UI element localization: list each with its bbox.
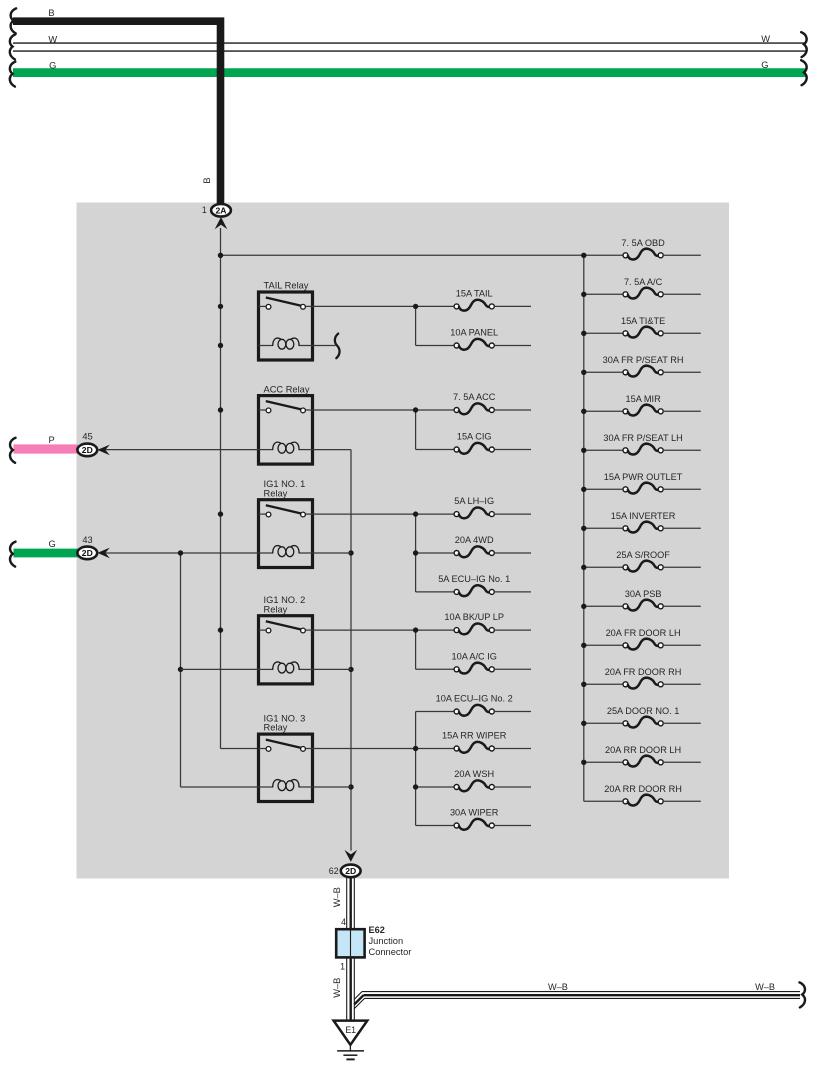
fuse 15A CIG (454, 432, 531, 454)
connector 2D pin 62 (341, 865, 361, 878)
fuse 15A TI&TE (621, 316, 701, 338)
fuse 10A ECU–IG No. 2 (436, 694, 531, 716)
fuse 10A PANEL (450, 328, 531, 350)
wire: coil bus to IG1 NO.2 coil (181, 668, 259, 670)
wire: coil return down-bus (right) (350, 450, 352, 851)
svg-text:25A DOOR NO. 1: 25A DOOR NO. 1 (607, 706, 680, 716)
relay IG1 NO. 1 (259, 479, 313, 567)
svg-text:30A PSB: 30A PSB (625, 589, 662, 599)
svg-text:G: G (49, 60, 56, 70)
svg-text:20A WSH: 20A WSH (454, 769, 494, 779)
svg-text:30A WIPER: 30A WIPER (450, 808, 499, 818)
label B vertical (202, 177, 212, 183)
svg-text:2D: 2D (345, 866, 356, 876)
fuse bus TAIL group (413, 304, 454, 346)
svg-text:20A FR DOOR LH: 20A FR DOOR LH (606, 628, 681, 638)
svg-text:5A LH–IG: 5A LH–IG (454, 496, 494, 506)
fuse 15A RR WIPER (442, 731, 531, 753)
svg-text:43: 43 (82, 535, 92, 545)
break symbol W left (10, 34, 15, 59)
svg-text:W: W (761, 34, 770, 44)
pin 43 label (82, 535, 92, 545)
fuse 15A TAIL (454, 288, 531, 310)
svg-text:15A TI&TE: 15A TI&TE (621, 316, 665, 326)
svg-text:62: 62 (329, 866, 339, 876)
fuse bus ACC group (413, 407, 454, 449)
svg-text:10A BK/UP LP: 10A BK/UP LP (444, 612, 504, 622)
wire W-B from junction connector to ground (347, 957, 355, 1020)
wire G (green) to pin 43 (14, 549, 79, 558)
wire: IG1 NO.1 switch output (313, 513, 455, 515)
fuse 20A RR DOOR RH (604, 784, 701, 806)
break symbol W right (801, 32, 806, 57)
junction block (instrument panel J/B) (77, 203, 730, 879)
svg-text:2D: 2D (82, 445, 93, 455)
connector 2D pin 45 (77, 444, 97, 457)
fuse 5A LH–IG (454, 496, 531, 518)
fuse 20A 4WD (454, 535, 531, 557)
break symbol G right (801, 60, 806, 85)
arrow into block at 2A (215, 217, 228, 229)
wire: IG1 NO.1 coil to down-bus (313, 552, 352, 554)
junction dots on down-bus (348, 550, 353, 789)
fuse bus IG1 NO.1 group (413, 511, 454, 592)
svg-text:E62: E62 (369, 925, 385, 935)
svg-text:15A RR WIPER: 15A RR WIPER (442, 731, 507, 741)
svg-text:20A RR DOOR RH: 20A RR DOOR RH (604, 784, 682, 794)
fuse 7. 5A A/C (623, 277, 701, 299)
svg-text:2A: 2A (216, 206, 227, 216)
svg-text:Relay: Relay (264, 488, 288, 498)
break symbol after TAIL coil (335, 334, 340, 359)
fuse bus IG1 NO.3 group (413, 712, 454, 826)
wire: IG1 NO.2 switch output (313, 629, 455, 631)
wire: main B+ bus vertical (221, 228, 259, 749)
wire W-B from 2D-62 to junction connector (347, 878, 355, 929)
svg-text:10A PANEL: 10A PANEL (450, 328, 498, 338)
label W left (48, 34, 57, 44)
fuse 7. 5A ACC (453, 392, 531, 414)
label G left (49, 60, 56, 70)
svg-text:7. 5A OBD: 7. 5A OBD (621, 238, 665, 248)
svg-text:1: 1 (340, 962, 345, 972)
wire: coil feed bus (left) (180, 553, 182, 787)
svg-text:7. 5A A/C: 7. 5A A/C (624, 277, 663, 287)
arrow out at pin 62 (345, 850, 358, 862)
fuse 30A FR P/SEAT RH (603, 355, 701, 377)
relay ACC Relay (259, 384, 313, 464)
wire: TAIL relay switch output to fuses (313, 305, 455, 307)
pin 45 label (82, 431, 92, 441)
svg-text:W: W (48, 34, 57, 44)
svg-text:P: P (49, 435, 55, 445)
ground E1 (334, 1021, 368, 1060)
break symbol G43 left (10, 542, 15, 567)
svg-text:G: G (49, 539, 56, 549)
wire B (top, heavy black) into junction block (13, 21, 221, 204)
svg-text:7. 5A ACC: 7. 5A ACC (453, 392, 496, 402)
svg-text:TAIL Relay: TAIL Relay (264, 281, 309, 291)
svg-text:10A ECU–IG No. 2: 10A ECU–IG No. 2 (436, 694, 513, 704)
fuse 20A WSH (454, 769, 531, 791)
arrow out at pin 45 (97, 445, 109, 456)
label G43 (49, 539, 56, 549)
arrow out at pin 43 (97, 548, 109, 559)
label W-B horizontal 1 (548, 982, 568, 992)
svg-text:Relay: Relay (264, 723, 288, 733)
label W-B horizontal 2 (755, 982, 775, 992)
svg-text:5A ECU–IG No. 1: 5A ECU–IG No. 1 (438, 574, 510, 584)
wire: IG1 NO.2 coil to down-bus (313, 668, 352, 670)
junction dot coil feed bus (178, 550, 183, 672)
svg-text:Relay: Relay (264, 604, 288, 614)
svg-text:10A A/C IG: 10A A/C IG (451, 651, 496, 661)
break symbol W-B right (800, 982, 805, 1007)
svg-text:20A FR DOOR RH: 20A FR DOOR RH (605, 667, 682, 677)
break symbol P left (10, 438, 15, 463)
break symbol B left (11, 8, 16, 33)
fuse 5A ECU–IG No. 1 (438, 574, 531, 596)
wire: pin 43 to IG1 NO.1 coil (106, 552, 259, 554)
svg-text:15A MIR: 15A MIR (625, 394, 661, 404)
svg-text:30A FR P/SEAT RH: 30A FR P/SEAT RH (603, 355, 684, 365)
junction connector E62 (336, 929, 364, 957)
svg-text:15A INVERTER: 15A INVERTER (611, 511, 676, 521)
wire G (top, green) (13, 68, 806, 77)
wire P (pink) to pin 45 (14, 444, 79, 453)
fuse bus IG1 NO.2 group (413, 627, 454, 669)
fuse 7. 5A OBD (621, 238, 700, 260)
connector 2D pin 43 (77, 547, 97, 560)
pin 1 label E62 (340, 962, 345, 972)
label G right (761, 60, 768, 70)
fuse 15A PWR OUTLET (604, 472, 701, 494)
wire W-B horizontal branch (354, 992, 800, 1009)
wire W (top, double line) (13, 43, 806, 51)
right fuse bank bus (581, 253, 625, 802)
wire: pin 45 to ACC relay coil (106, 449, 259, 451)
label B top (48, 8, 54, 18)
label W-B vertical upper (332, 887, 342, 907)
svg-text:W–B: W–B (548, 982, 568, 992)
wire: IG1 NO.3 switch output (313, 748, 455, 750)
svg-text:15A PWR OUTLET: 15A PWR OUTLET (604, 472, 683, 482)
fuse 10A A/C IG (451, 651, 531, 673)
svg-text:ACC Relay: ACC Relay (264, 384, 310, 394)
fuse 20A FR DOOR LH (606, 628, 701, 650)
wire: IG1 NO.3 coil to down-bus (313, 786, 352, 788)
wire: feed to right fuse bank (221, 254, 584, 256)
svg-text:W–B: W–B (332, 978, 342, 998)
svg-text:15A TAIL: 15A TAIL (456, 288, 493, 298)
label W-B vertical lower (332, 978, 342, 998)
svg-text:15A CIG: 15A CIG (457, 432, 492, 442)
pin 4 label E62 (341, 917, 346, 927)
fuse 15A MIR (623, 394, 701, 416)
fuse 20A RR DOOR LH (605, 745, 701, 767)
label E62 Junction Connector (369, 925, 412, 957)
fuse 30A PSB (623, 589, 701, 611)
label P (49, 435, 55, 445)
fuse 15A INVERTER (611, 511, 701, 533)
fuse 30A WIPER (450, 808, 531, 830)
relay IG1 NO. 2 (259, 595, 313, 684)
svg-text:25A S/ROOF: 25A S/ROOF (616, 550, 670, 560)
wire: ACC relay switch output to fuses (313, 409, 455, 411)
svg-text:20A 4WD: 20A 4WD (455, 535, 494, 545)
svg-text:Junction: Junction (369, 936, 404, 946)
wire: ACC coil to down-bus (313, 449, 352, 451)
svg-text:45: 45 (82, 431, 92, 441)
fuse 25A S/ROOF (616, 550, 701, 572)
svg-text:B: B (48, 8, 54, 18)
svg-text:4: 4 (341, 917, 346, 927)
connector 2A (211, 204, 231, 217)
svg-text:G: G (761, 60, 768, 70)
label W right (761, 34, 770, 44)
svg-text:30A FR P/SEAT LH: 30A FR P/SEAT LH (603, 433, 682, 443)
fuse 25A DOOR NO. 1 (607, 706, 701, 728)
wire: coil bus to IG1 NO.3 coil (181, 786, 259, 788)
junction dots on main bus (218, 253, 223, 633)
svg-text:1: 1 (202, 205, 207, 215)
svg-text:W–B: W–B (332, 887, 342, 907)
break symbol G left (10, 62, 15, 87)
svg-text:E1: E1 (345, 1025, 356, 1035)
pin 1 label of connector 2A (202, 205, 207, 215)
relay IG1 NO. 3 (259, 714, 313, 802)
fuse 30A FR P/SEAT LH (603, 433, 700, 455)
svg-text:2D: 2D (82, 548, 93, 558)
fuse 20A FR DOOR RH (605, 667, 701, 689)
pin 62 label (329, 866, 339, 876)
svg-text:20A RR DOOR LH: 20A RR DOOR LH (605, 745, 681, 755)
wire: TAIL relay coil output (313, 345, 336, 347)
relay TAIL Relay (259, 281, 313, 360)
svg-text:Connector: Connector (369, 947, 412, 957)
svg-text:B: B (202, 177, 212, 183)
fuse 10A BK/UP LP (444, 612, 531, 634)
svg-text:W–B: W–B (755, 982, 775, 992)
